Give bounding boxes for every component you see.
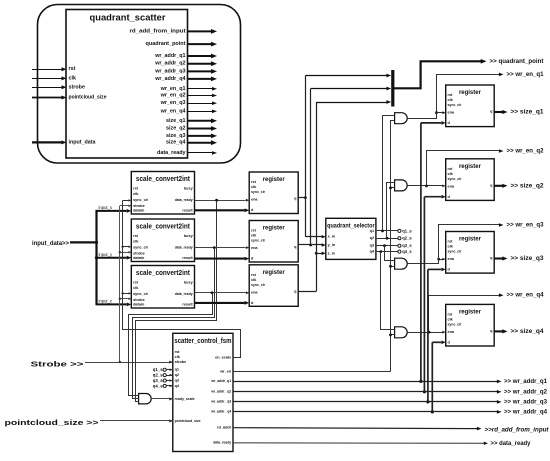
wire size_q1 out [494, 111, 503, 113]
arrowhead ready_scale [169, 398, 173, 401]
svg-text:q3: q3 [370, 244, 374, 248]
svg-text:q3: q3 [175, 379, 179, 383]
arrowhead q1_s fsm [170, 368, 173, 371]
svg-text:wr_en_q4: wr_en_q4 [160, 108, 186, 114]
arrowhead ena U7 [442, 111, 445, 114]
svg-text:>> size_q3: >> size_q3 [511, 255, 544, 262]
wire v3 z_int vertical [316, 102, 318, 292]
wire x_int into selector [305, 236, 321, 238]
svg-text:>> quadrant_point: >> quadrant_point [490, 58, 545, 65]
svg-text:wr_addr_q1: wr_addr_q1 [210, 379, 231, 383]
arrowhead wr_addr_q3 out [497, 400, 502, 404]
wire G4 riser wr_en_q4 [429, 296, 501, 333]
wire q3_s riser [385, 246, 395, 261]
arrowhead size_q4 [502, 329, 507, 333]
wire size_q3 out [494, 257, 503, 259]
junction G3 riser [437, 258, 440, 261]
svg-text:wr_addr_q3: wr_addr_q3 [154, 68, 185, 74]
svg-text:result: result [182, 209, 193, 213]
junction wr_addr_q3 [426, 400, 429, 403]
wire data_ready U3 to register ena [195, 292, 246, 294]
arrowhead output wr_en_q1 [212, 87, 217, 91]
wire z_int into selector [316, 253, 321, 255]
arrowhead output quadrant_point [211, 42, 217, 47]
wire selector q1_s [376, 230, 398, 232]
arrowhead output wr_addr_q1 [211, 54, 217, 59]
svg-text:wr_en_q2: wr_en_q2 [160, 93, 186, 99]
arrowhead output wr_addr_q3 [211, 69, 217, 74]
svg-text:rd_addr: rd_addr [217, 426, 232, 430]
arrowhead input_y [127, 256, 132, 260]
svg-text:rst: rst [448, 313, 454, 317]
wire wr_addr_q4 vertical [431, 342, 433, 412]
arrowhead output wr_en_q4 [212, 110, 217, 114]
wire ena U7 [437, 112, 443, 114]
wire q1_s into fsm [166, 369, 172, 371]
arrowhead sync_clr U2 [129, 246, 132, 248]
svg-text:rd_add_from_input: rd_add_from_input [130, 28, 186, 34]
wire output wr_addr_q2 from symbol [188, 63, 213, 65]
wire quadrant_point [393, 61, 482, 88]
svg-text:ena: ena [251, 198, 258, 202]
junction input_data/trunk [95, 241, 98, 244]
block scale_convert2int U1 [131, 172, 194, 215]
arrowhead input_z [127, 303, 132, 307]
svg-text:quadrant_selector: quadrant_selector [327, 223, 375, 230]
arrowhead z_int bar [386, 100, 391, 104]
svg-text:q2_s: q2_s [153, 373, 163, 378]
wire wr_addr_q2 out [233, 391, 498, 393]
wire output wr_addr_q4 from symbol [188, 78, 213, 80]
junction q1_s [381, 230, 384, 233]
arrowhead wr_addr_q4 d [441, 341, 445, 345]
svg-text:size_q3: size_q3 [166, 133, 185, 139]
svg-text:>> wr_addr_q4: >> wr_addr_q4 [504, 408, 547, 415]
svg-text:clk: clk [448, 98, 454, 102]
arrowhead input pointcloud_size [62, 96, 67, 100]
svg-text:size_q1: size_q1 [166, 118, 185, 124]
wire selector q4_s [376, 251, 398, 253]
svg-text:data_ready: data_ready [175, 198, 194, 202]
wire z_int to concat bar [316, 102, 386, 104]
arrowhead strobe into fsm [169, 361, 173, 364]
svg-text:register: register [459, 89, 481, 96]
junction v3 z_in branch [315, 252, 318, 255]
module symbol outer frame quadrant_scatter [38, 5, 241, 164]
wire q3_s into fsm [166, 380, 172, 382]
svg-text:sync_clr: sync_clr [133, 198, 148, 202]
svg-text:register: register [263, 269, 285, 276]
wire input pointcloud_size into symbol [32, 97, 62, 99]
wire wr_addr_q2 vertical [423, 197, 425, 392]
svg-text:data_ready: data_ready [213, 441, 232, 445]
wire G2 output to ena U8 [407, 185, 442, 187]
wire q4_s into fsm [166, 385, 172, 387]
wire v1 x_int vertical [305, 76, 307, 237]
wire wr_addr_q2 into d [424, 196, 441, 198]
svg-text:>>rd_add_from_input: >>rd_add_from_input [485, 426, 550, 433]
wire rd_addr out [233, 427, 478, 430]
svg-text:clk: clk [448, 317, 454, 321]
wire data_ready U2 loop to G5 [133, 248, 215, 399]
arrowhead wr_en_q4 [499, 293, 504, 297]
wire output wr_addr_q1 from symbol [188, 55, 213, 57]
arrowhead q2_s fsm [170, 374, 173, 377]
svg-text:wr_en: wr_en [219, 369, 232, 373]
wire output size_q4 from symbol [188, 142, 213, 144]
wire q4_s riser [381, 252, 395, 330]
arrowhead strobe U1 [129, 205, 132, 207]
arrowhead input clk [62, 76, 67, 80]
wire size_q4 out [494, 330, 503, 332]
svg-text:clk: clk [448, 245, 454, 249]
svg-text:strobe: strobe [69, 84, 85, 90]
svg-text:y_in: y_in [328, 243, 336, 247]
arrowhead output wr_addr_q4 [211, 77, 217, 82]
wire v2 y_int vertical [310, 89, 312, 246]
block register U8 [446, 159, 495, 201]
net connector q4_s fsm [163, 384, 166, 387]
wire size_q2 out [494, 185, 503, 187]
arrowhead input strobe [62, 85, 67, 89]
block quadrant_selector U11 [326, 218, 376, 259]
svg-text:pointcloud_size >>: pointcloud_size >> [5, 418, 99, 427]
arrowhead ena U4 [246, 199, 249, 202]
svg-text:ready_scale: ready_scale [175, 397, 195, 401]
junction en_scale U2 [121, 246, 123, 248]
wire wr_addr_q1 vertical [420, 123, 422, 382]
wire reg U6 q to v3 [298, 291, 316, 293]
svg-text:wr_addr_q2: wr_addr_q2 [154, 61, 185, 67]
wire data_ready U2 to register ena [195, 247, 246, 249]
junction G1 ena branch [435, 111, 438, 114]
net connector q1_s [398, 229, 401, 232]
svg-text:clk: clk [251, 278, 257, 282]
wire en_scale to U3 sync_clr [123, 293, 129, 295]
svg-text:size_q2: size_q2 [166, 126, 185, 132]
wire input strobe into symbol [32, 87, 62, 89]
wire G2 riser wr_en_q2 [427, 151, 501, 186]
arrowhead strobe U2 [129, 251, 132, 253]
wire data_ready U3 loop to G5 [129, 293, 213, 396]
arrowhead wr_addr_q1 out [497, 380, 502, 384]
svg-text:pointcloud_size: pointcloud_size [69, 95, 107, 101]
junction G2 riser [425, 185, 428, 188]
arrowhead result d U5 [245, 257, 250, 261]
arrowhead result d U6 [245, 301, 250, 305]
wire data_ready out [233, 442, 484, 444]
svg-text:datain: datain [133, 256, 145, 260]
svg-text:sync_clr: sync_clr [448, 250, 462, 254]
wire output wr_en_q3 from symbol [188, 103, 213, 105]
wire strobe vertical [119, 206, 121, 362]
svg-text:rst: rst [448, 240, 454, 244]
arrowhead size_q3 [502, 256, 507, 260]
wire output size_q1 from symbol [188, 120, 213, 122]
arrowhead pointcloud_size into fsm [169, 420, 173, 423]
arrowhead q3_s fsm [170, 379, 173, 382]
svg-text:q2: q2 [175, 373, 179, 377]
wire output quadrant_point from symbol [188, 43, 213, 45]
svg-text:clk: clk [133, 286, 139, 290]
svg-text:>> wr_en_q4: >> wr_en_q4 [507, 292, 544, 299]
svg-text:wr_addr_q1: wr_addr_q1 [154, 53, 185, 59]
svg-text:rst: rst [251, 273, 257, 277]
svg-text:strobe: strobe [133, 204, 145, 208]
wire x_int to concat bar [305, 75, 386, 77]
arrowhead wr_en_q3 [499, 223, 504, 227]
arrowhead quadrant_point [481, 59, 487, 64]
wire q2_s into fsm [166, 375, 172, 377]
svg-text:>> size_q2: >> size_q2 [511, 182, 544, 189]
svg-text:scale_convert2int: scale_convert2int [136, 176, 191, 183]
svg-text:rst: rst [448, 93, 454, 97]
wire wr_addr_q3 vertical [427, 269, 429, 402]
wire wr_addr_q4 into d [432, 341, 441, 343]
svg-text:rst: rst [133, 234, 139, 238]
net connector q1_s fsm [163, 368, 166, 371]
block register U7 [446, 85, 495, 127]
wire en_scale to U2 sync_clr [123, 246, 129, 248]
junction en_scale U3 [121, 292, 123, 294]
block register U10 [446, 304, 495, 346]
and-gate G5 ready_scale [139, 394, 152, 404]
svg-text:ena: ena [448, 257, 455, 261]
wire strobe to U2 [120, 252, 129, 254]
svg-text:scatter_control_fsm: scatter_control_fsm [174, 338, 231, 345]
arrowhead input input_data [62, 140, 67, 144]
wire wr_en from fsm [233, 371, 391, 373]
arrowhead ena U10 [442, 331, 445, 334]
svg-text:register: register [459, 163, 481, 170]
block register U9 [446, 232, 495, 274]
arrowhead output size_q1 [211, 118, 217, 123]
wire data_ready U1 to register ena [195, 200, 246, 202]
arrowhead data_ready out [484, 442, 488, 445]
svg-text:x_in: x_in [328, 235, 336, 239]
svg-text:data_ready: data_ready [157, 150, 185, 156]
svg-text:datain: datain [133, 209, 145, 213]
svg-text:busy: busy [184, 281, 194, 285]
arrowhead sync_clr U3 [129, 292, 132, 294]
arrowhead q4_s fsm [170, 385, 173, 388]
wire wr_en branch to gate [391, 266, 395, 268]
svg-text:quadrant_scatter: quadrant_scatter [90, 13, 166, 24]
svg-text:clk: clk [251, 234, 257, 238]
arrowhead ena U9 [442, 258, 445, 261]
svg-text:pointcloud_size: pointcloud_size [175, 419, 201, 423]
wire selector q2_s [376, 238, 398, 240]
arrowhead output wr_en_q2 [212, 94, 217, 98]
svg-text:data_ready: data_ready [175, 292, 194, 296]
arrowhead output data_ready [212, 151, 217, 155]
block scatter_control_fsm U12 [173, 333, 233, 451]
wire pointcloud_size [100, 420, 173, 422]
svg-text:q1_s: q1_s [402, 228, 412, 233]
junction wr_addr_q4 [431, 410, 434, 413]
wire wr_en branch to gate [391, 187, 395, 189]
svg-text:sync_clr: sync_clr [448, 177, 462, 181]
wire input rst into symbol [32, 69, 62, 71]
arrowhead size_q2 [502, 184, 507, 188]
and-gate G2 [395, 180, 408, 191]
block register U6 [249, 265, 298, 307]
arrowhead y_int bar [386, 87, 391, 91]
arrowhead input_x [127, 209, 132, 213]
junction v1 q [304, 196, 307, 199]
arrowhead output rd_add_from_input [211, 29, 217, 34]
arrowhead wr_addr_q2 d [441, 195, 445, 199]
wire output wr_addr_q3 from symbol [188, 70, 213, 72]
junction v2 q [309, 244, 312, 247]
arrowhead output wr_en_q3 [212, 101, 217, 105]
svg-text:rst: rst [448, 167, 454, 171]
junction data_ready U3 [211, 291, 214, 294]
svg-text:wr_en_q1: wr_en_q1 [160, 86, 186, 92]
wire input_data feed [70, 241, 97, 243]
arrowhead output size_q2 [211, 126, 217, 131]
wire wr_en vertical [391, 121, 395, 372]
wire strobe to U1 [120, 205, 129, 207]
arrowhead ena U6 [246, 291, 249, 294]
svg-text:scale_convert2int: scale_convert2int [136, 223, 191, 230]
arrowhead result d U4 [245, 208, 250, 212]
svg-text:ena: ena [448, 330, 455, 334]
svg-text:q1: q1 [175, 368, 179, 372]
wire input_y into datain [96, 257, 127, 259]
svg-text:input_data>>: input_data>> [32, 240, 69, 247]
junction trunk/input_y [95, 256, 98, 259]
wire Strobe horizontal [85, 362, 173, 364]
svg-text:wr_addr_q4: wr_addr_q4 [154, 76, 185, 82]
svg-text:en_scale: en_scale [215, 356, 231, 360]
junction G4 riser [428, 331, 431, 334]
svg-text:ena: ena [448, 184, 455, 188]
wire output wr_en_q1 from symbol [188, 88, 213, 90]
wire result U3 to register d [195, 302, 245, 304]
svg-text:sync_clr: sync_clr [251, 283, 265, 287]
arrowhead x_in [322, 235, 326, 238]
junction data_ready U2 [213, 246, 216, 249]
wire output size_q3 from symbol [188, 135, 213, 137]
arrowhead x_int bar [386, 74, 391, 78]
wire G3 output [408, 260, 443, 264]
svg-text:>> size_q1: >> size_q1 [511, 109, 544, 116]
svg-text:sync_clr: sync_clr [448, 323, 462, 327]
block scale_convert2int U2 [131, 219, 194, 262]
wire reg U4 q to v1 [298, 197, 305, 199]
arrowhead output wr_addr_q2 [211, 61, 217, 66]
net connector q2_s fsm [163, 374, 166, 377]
arrowhead wr_addr_q4 out [497, 410, 502, 414]
net connector q3_s fsm [163, 379, 166, 382]
junction wr_addr_q2 [423, 390, 426, 393]
wire reg U5 q to v2 [298, 244, 311, 246]
arrowhead z_in [322, 252, 326, 255]
block register U4 [249, 172, 298, 214]
svg-text:ena: ena [251, 246, 258, 250]
svg-text:quadrant_point: quadrant_point [146, 41, 186, 47]
svg-text:sync_clr: sync_clr [251, 190, 265, 194]
svg-text:Strobe >>: Strobe >> [31, 359, 84, 368]
and-gate G4 [395, 327, 408, 338]
junction strobe U3 [119, 298, 121, 300]
wire input_data trunk [95, 210, 97, 305]
svg-text:q3_s: q3_s [402, 243, 412, 248]
arrowhead size_q1 [502, 110, 507, 114]
wire result U1 to register d [195, 209, 245, 211]
wire wr_en branch to gate [391, 334, 395, 336]
arrowhead strobe U3 [129, 298, 132, 300]
wire output wr_en_q4 from symbol [188, 111, 213, 113]
and-gate G3 [395, 258, 408, 269]
arrowhead output size_q3 [211, 134, 217, 139]
svg-text:clk: clk [175, 355, 181, 359]
svg-text:busy: busy [184, 187, 194, 191]
svg-text:sync_clr: sync_clr [251, 239, 265, 243]
net connector q4_s [398, 250, 401, 253]
svg-text:strobe: strobe [133, 298, 145, 302]
wire en_scale loop [123, 201, 241, 358]
svg-text:>> size_q4: >> size_q4 [511, 328, 544, 335]
svg-text:data_ready: data_ready [175, 246, 194, 250]
svg-text:clk: clk [133, 192, 139, 196]
arrowhead sync_clr U1 [129, 199, 132, 201]
wire y_int to concat bar [311, 88, 387, 90]
wire output wr_en_q2 from symbol [188, 95, 213, 97]
svg-text:input_z: input_z [99, 299, 113, 304]
svg-text:>> wr_addr_q3: >> wr_addr_q3 [504, 398, 547, 405]
svg-text:sync_clr: sync_clr [133, 292, 148, 296]
junction strobe U2 [119, 251, 121, 253]
wire wr_addr_q3 into d [428, 268, 441, 270]
wire result U2 to register d [195, 258, 245, 260]
junction q4_s [379, 250, 382, 253]
block register U5 [249, 221, 298, 263]
junction data_ready U1 [215, 199, 218, 202]
wire selector q3_s [376, 245, 398, 247]
svg-text:busy: busy [184, 234, 194, 238]
svg-text:sync_clr: sync_clr [448, 103, 462, 107]
net connector q3_s [398, 244, 401, 247]
svg-text:register: register [459, 309, 481, 316]
wire q2_s riser [387, 183, 395, 239]
wire wr_addr_q3 out [233, 401, 498, 403]
wire output data_ready from symbol [188, 152, 213, 154]
svg-text:clk: clk [69, 75, 77, 81]
arrowhead ena U8 [442, 185, 445, 188]
arrowhead wr_addr_q2 out [497, 390, 502, 394]
arrowhead output size_q4 [211, 140, 217, 145]
svg-text:wr_addr_ q3: wr_addr_ q3 [210, 400, 231, 404]
svg-text:register: register [263, 225, 285, 232]
svg-text:clk: clk [251, 185, 257, 189]
svg-text:result: result [182, 303, 193, 307]
wire en_scale to U1 sync_clr [123, 200, 129, 202]
wire wr_addr_q1 out [233, 381, 498, 383]
wire data_ready U1 loop to G5 [136, 201, 217, 402]
wire wr_addr_q4 out [233, 411, 498, 413]
svg-text:rst: rst [69, 66, 76, 72]
svg-text:q1_s: q1_s [153, 367, 163, 372]
svg-text:q2: q2 [370, 236, 374, 240]
svg-text:>> wr_addr_q1: >> wr_addr_q1 [504, 378, 547, 385]
module symbol body quadrant_scatter [66, 10, 188, 159]
svg-text:>> wr_en_q3: >> wr_en_q3 [507, 222, 544, 229]
wire output size_q2 from symbol [188, 128, 213, 130]
svg-text:q1: q1 [370, 229, 374, 233]
wire G3 riser wr_en_q3 [439, 225, 501, 264]
